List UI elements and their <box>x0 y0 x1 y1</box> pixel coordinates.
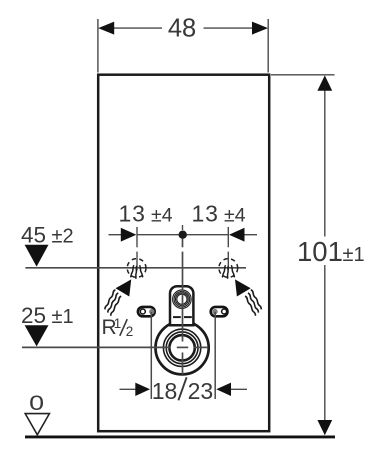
svg-text:±1: ±1 <box>343 244 365 266</box>
svg-text:23: 23 <box>188 378 214 404</box>
svg-text:±2: ±2 <box>52 225 74 247</box>
svg-text:45: 45 <box>21 222 46 247</box>
svg-text:18: 18 <box>152 378 178 404</box>
svg-text:0: 0 <box>29 392 44 416</box>
svg-text:25: 25 <box>21 303 46 328</box>
svg-text:±1: ±1 <box>52 306 74 328</box>
svg-text:±4: ±4 <box>151 204 173 226</box>
svg-text:101: 101 <box>297 236 343 267</box>
svg-text:±4: ±4 <box>224 204 246 226</box>
svg-text:13: 13 <box>119 200 146 226</box>
svg-text:13: 13 <box>192 200 219 226</box>
svg-text:2: 2 <box>126 324 134 339</box>
svg-text:1: 1 <box>114 316 122 331</box>
svg-text:48: 48 <box>168 15 196 43</box>
